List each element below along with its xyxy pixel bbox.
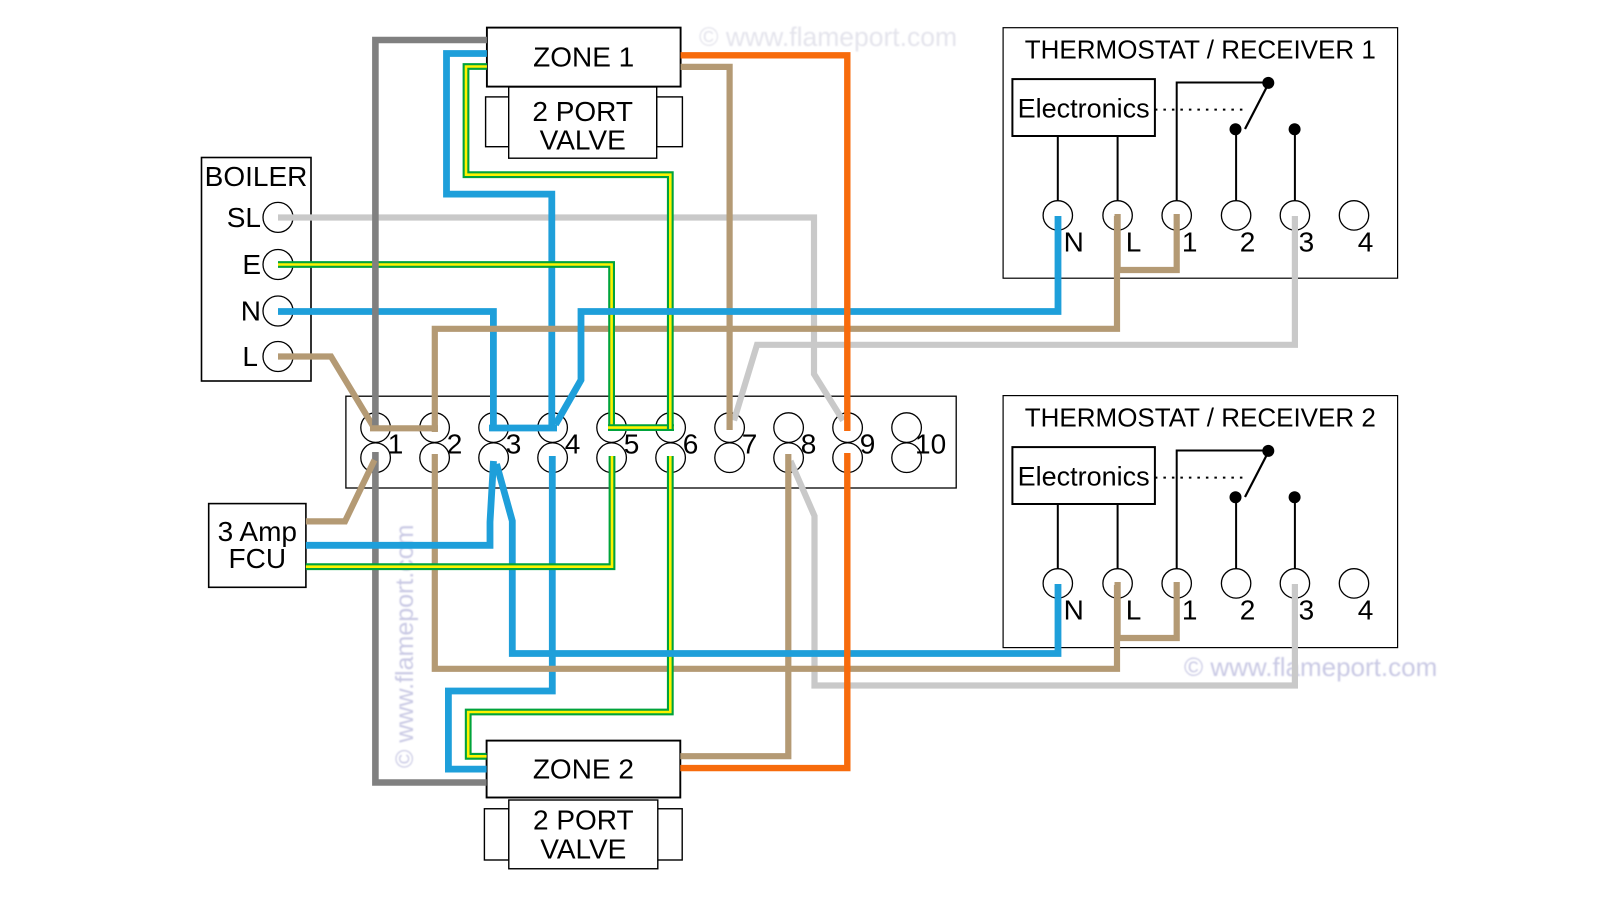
svg-text:L: L [242, 341, 258, 372]
svg-text:3: 3 [506, 429, 522, 460]
svg-text:Electronics: Electronics [1018, 94, 1150, 124]
svg-text:L: L [1126, 226, 1142, 257]
svg-text:SL: SL [227, 202, 261, 233]
svg-text:N: N [1064, 594, 1084, 625]
svg-text:9: 9 [860, 429, 876, 460]
svg-text:BOILER: BOILER [205, 161, 308, 192]
svg-text:2: 2 [1240, 594, 1256, 625]
svg-text:© www.flameport.com: © www.flameport.com [699, 22, 957, 52]
svg-text:2: 2 [1240, 226, 1256, 257]
svg-text:N: N [241, 296, 261, 327]
svg-text:L: L [1126, 594, 1142, 625]
svg-text:VALVE: VALVE [540, 125, 626, 156]
svg-text:FCU: FCU [229, 543, 287, 574]
svg-text:5: 5 [624, 429, 640, 460]
svg-text:© www.flameport.com: © www.flameport.com [391, 525, 419, 768]
svg-text:4: 4 [565, 429, 581, 460]
svg-text:7: 7 [742, 429, 758, 460]
svg-text:4: 4 [1358, 226, 1374, 257]
svg-text:3: 3 [1299, 226, 1315, 257]
svg-text:6: 6 [683, 429, 699, 460]
svg-text:THERMOSTAT / RECEIVER 1: THERMOSTAT / RECEIVER 1 [1025, 35, 1376, 65]
svg-text:N: N [1064, 226, 1084, 257]
svg-text:Electronics: Electronics [1018, 462, 1150, 492]
svg-text:E: E [242, 249, 261, 280]
svg-text:1: 1 [388, 429, 404, 460]
svg-text:1: 1 [1182, 226, 1198, 257]
svg-text:10: 10 [915, 429, 946, 460]
svg-text:1: 1 [1182, 594, 1198, 625]
svg-text:2 PORT: 2 PORT [532, 96, 633, 127]
svg-text:© www.flameport.com: © www.flameport.com [1184, 652, 1437, 682]
svg-text:ZONE 2: ZONE 2 [533, 754, 634, 785]
svg-text:2 PORT: 2 PORT [533, 805, 634, 836]
svg-text:2: 2 [447, 429, 463, 460]
svg-text:3: 3 [1299, 594, 1315, 625]
svg-text:8: 8 [801, 429, 817, 460]
svg-text:4: 4 [1358, 594, 1374, 625]
svg-text:THERMOSTAT / RECEIVER 2: THERMOSTAT / RECEIVER 2 [1025, 403, 1376, 433]
svg-text:ZONE 1: ZONE 1 [533, 42, 634, 73]
svg-text:VALVE: VALVE [540, 834, 626, 865]
